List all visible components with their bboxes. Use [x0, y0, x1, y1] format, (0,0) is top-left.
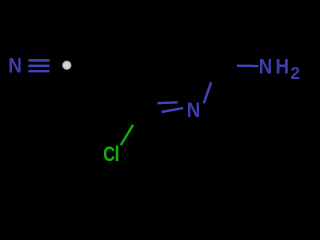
- triple bond carbon half (black, invisible on bg): [50, 60, 61, 71]
- svg-text:l: l: [115, 143, 120, 166]
- bond C6=N1 main edge carbon half (black): [138, 112, 162, 116]
- molecule: 2-amino-5-chloropyridine-carbonitrile structure on transparent(black) background: [0, 0, 300, 176]
- svg-text:N: N: [8, 54, 21, 77]
- ring edge C3-C2 (black): [183, 11, 220, 58]
- svg-text:N: N: [259, 55, 272, 78]
- triple bond C#N (blue half, three lines): [28, 60, 50, 71]
- svg-text:N: N: [187, 99, 200, 122]
- ring edge C4-C3 top (black): [126, 11, 183, 18]
- bond N1-C2 nitrogen half (blue): [204, 82, 211, 103]
- bond C6=N1 inner double line nitrogen half (blue): [158, 101, 178, 104]
- bond C6-Cl carbon half (black): [133, 117, 138, 125]
- bond nitrile-C to ring C5 (black): [73, 66, 104, 71]
- bond C6-Cl chlorine half (green): [121, 125, 133, 145]
- bond N1-C2 carbon half (black): [211, 58, 220, 82]
- svg-text:C: C: [103, 142, 115, 165]
- bond C6=N1 main edge nitrogen half (blue): [162, 108, 184, 112]
- bond C2-NH2 amine half (blue): [237, 64, 259, 67]
- bond C6=N1 inner double line carbon half (black): [147, 102, 158, 105]
- svg-text:2: 2: [290, 63, 300, 83]
- ring edge C5-C4 (black): [103, 18, 126, 71]
- ring edge C5-C6 (black): [103, 71, 138, 117]
- svg-text:H: H: [276, 55, 289, 78]
- bond C2-NH2 carbon half (black): [220, 58, 237, 66]
- nitrile carbon atom dot (grey): [62, 60, 71, 69]
